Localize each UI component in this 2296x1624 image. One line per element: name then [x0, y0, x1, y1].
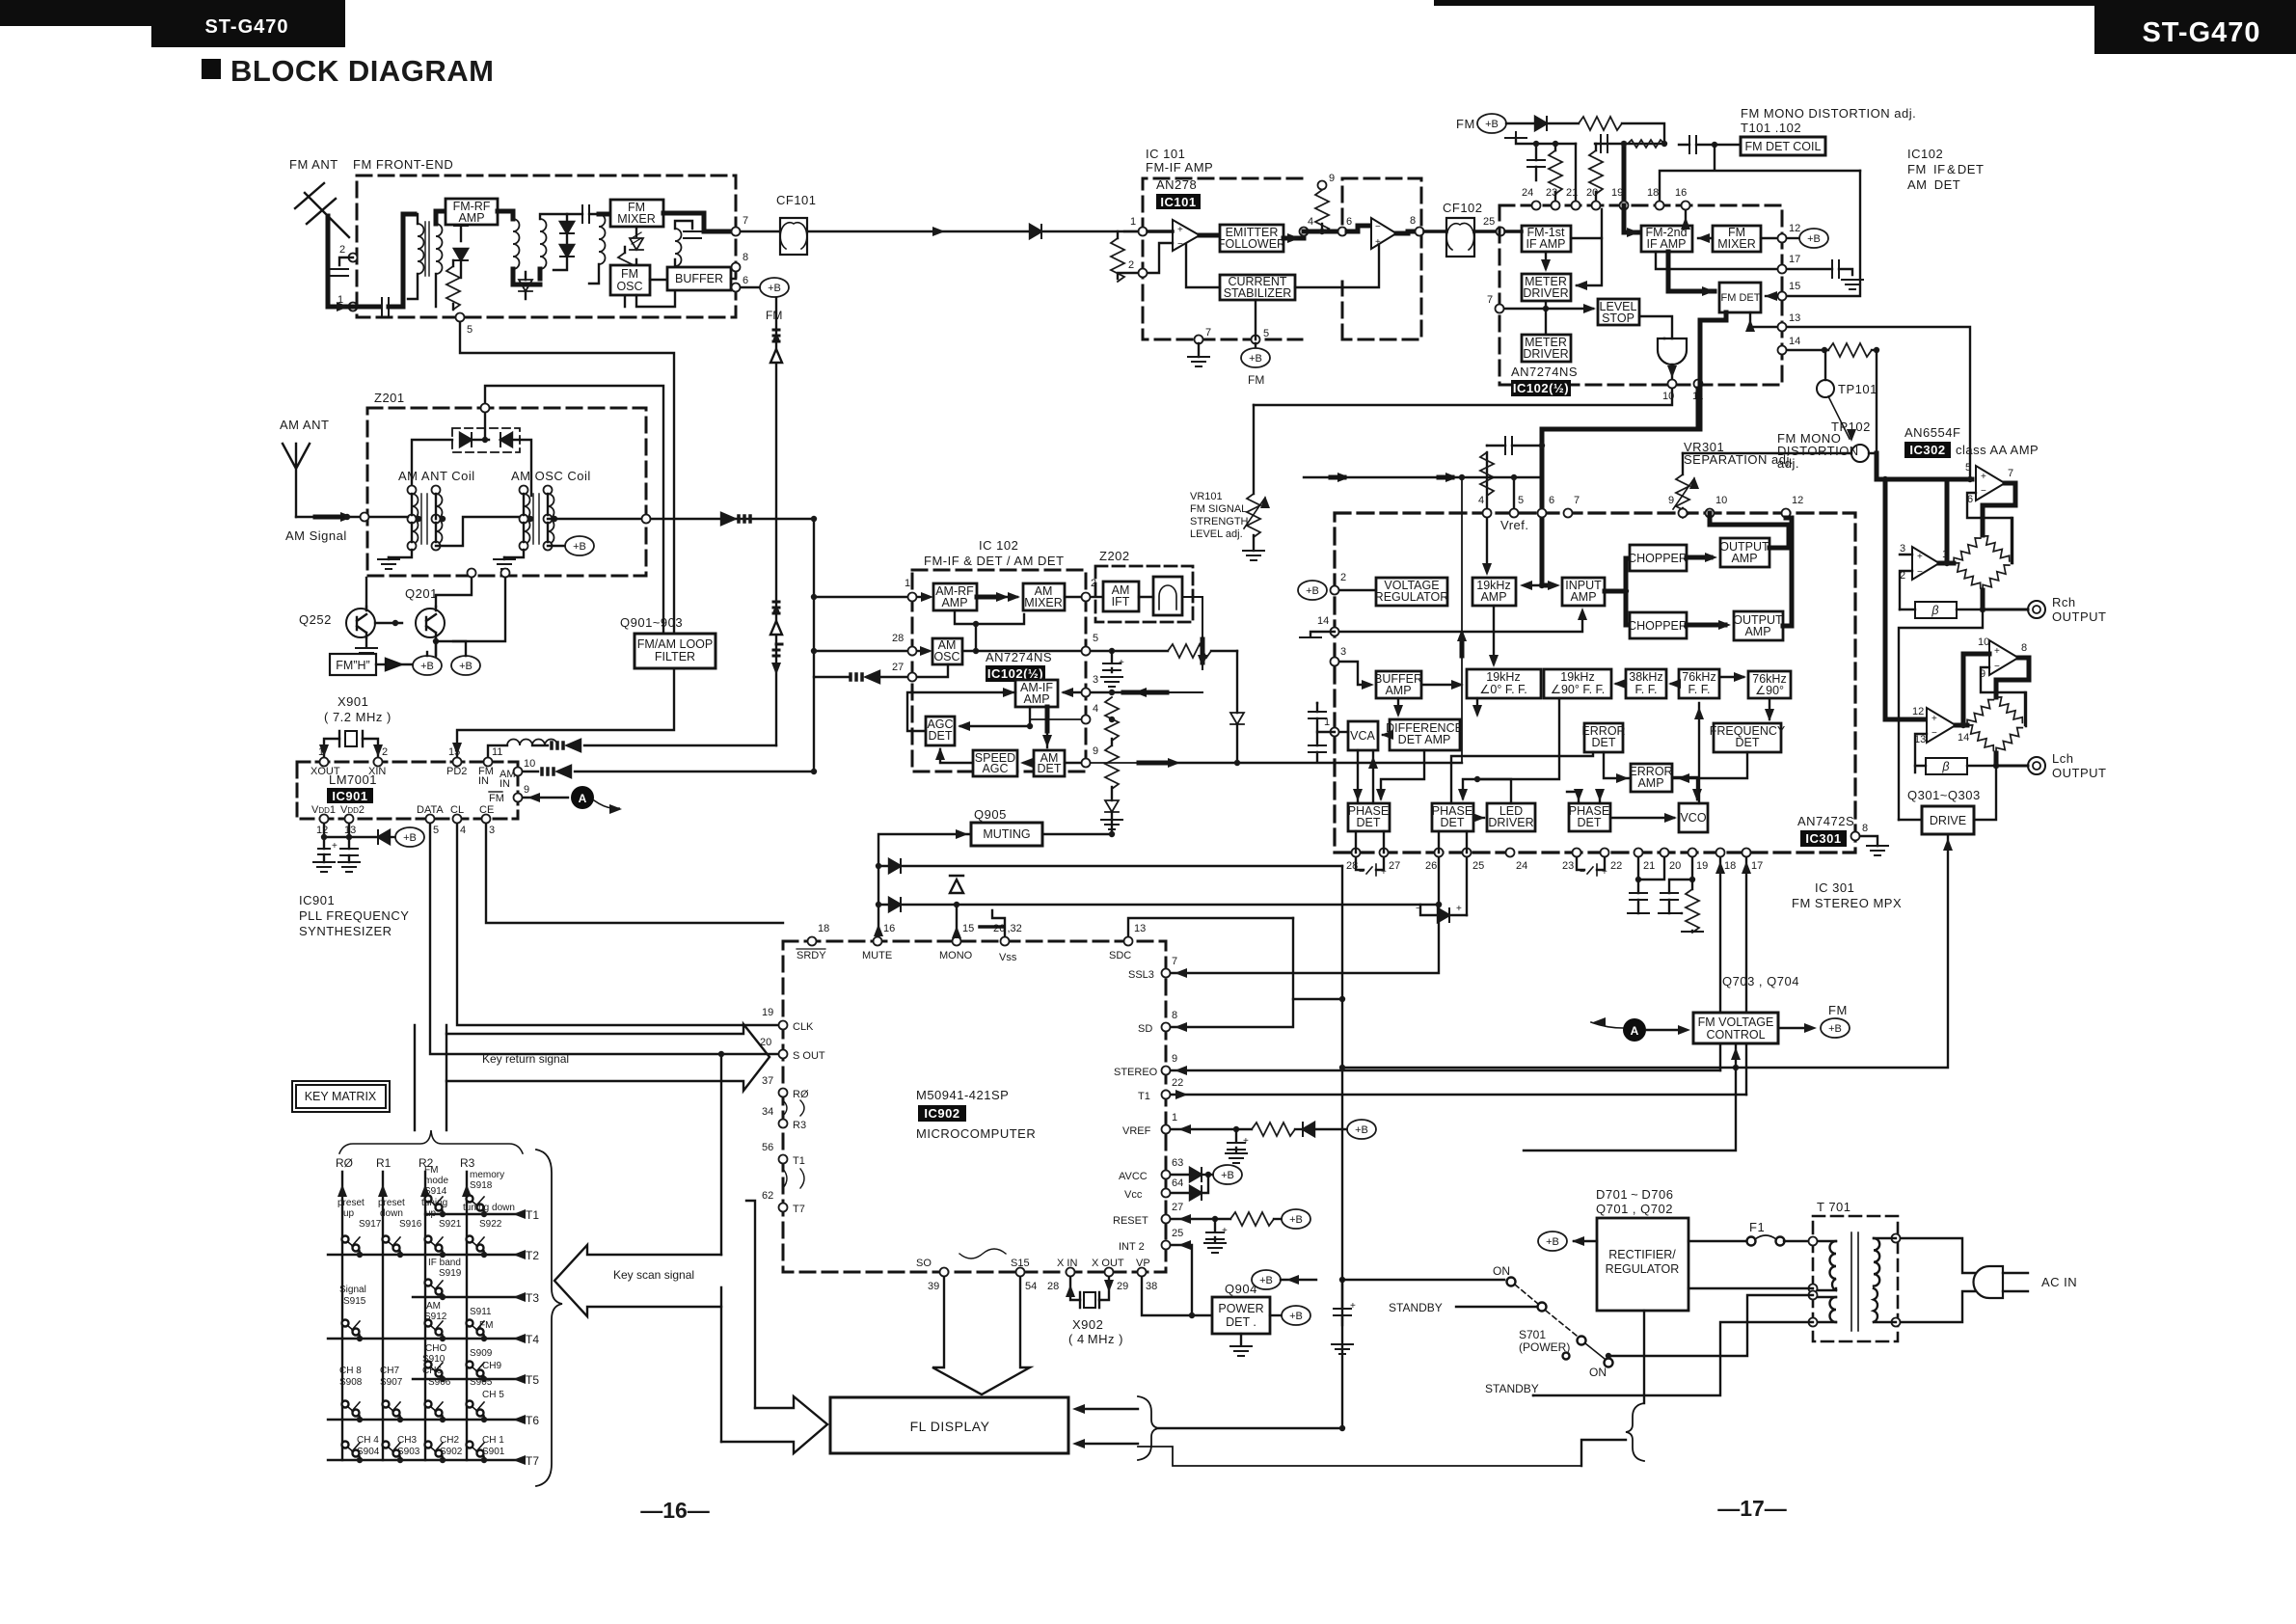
wire buffer to 19k0ff	[1421, 684, 1460, 686]
svg-text:14: 14	[1317, 615, 1329, 627]
svg-text:BLOCK DIAGRAM: BLOCK DIAGRAM	[230, 54, 494, 88]
svg-text:DRIVER: DRIVER	[1523, 286, 1568, 300]
svg-text:∠90°: ∠90°	[1755, 684, 1784, 697]
+B vdd oval	[395, 827, 424, 847]
svg-text:18: 18	[1647, 187, 1659, 199]
+B rectifier	[1538, 1232, 1567, 1251]
svg-text:10: 10	[524, 758, 535, 770]
svg-text:OSC: OSC	[616, 280, 642, 293]
+B reset	[1282, 1209, 1310, 1229]
svg-text:28: 28	[892, 633, 904, 644]
svg-text:β: β	[1941, 760, 1949, 773]
resistor mid2	[618, 253, 632, 296]
squiggle SO-S15	[959, 1249, 1006, 1259]
IC102 AM dashed box	[912, 570, 1086, 771]
pin14 left	[1331, 628, 1339, 636]
terminal 6	[732, 284, 741, 292]
svg-text:3: 3	[1900, 543, 1905, 555]
opamp b inv loop	[1981, 667, 2026, 726]
wire phase2 pins down	[1439, 831, 1467, 853]
FM-2nd IF AMP block	[1641, 226, 1692, 252]
svg-text:MIXER: MIXER	[1024, 596, 1063, 609]
coil right	[599, 214, 606, 264]
pin4 top	[1483, 509, 1492, 518]
svg-text:CH2: CH2	[440, 1435, 459, 1446]
pin9 STEREO	[1162, 1067, 1171, 1075]
svg-text:20: 20	[1586, 187, 1598, 199]
svg-text:29: 29	[1117, 1281, 1128, 1292]
VR301 pot	[1676, 474, 1689, 518]
svg-text:FM MONO DISTORTION adj.: FM MONO DISTORTION adj.	[1741, 106, 1916, 121]
svg-text:2: 2	[1340, 572, 1346, 583]
svg-text:CF102: CF102	[1443, 201, 1483, 215]
svg-text:7: 7	[1574, 495, 1580, 506]
svg-text:3: 3	[1093, 674, 1098, 686]
wire outamp2 out thick	[1783, 518, 1792, 626]
wire buffer out	[731, 278, 736, 280]
FM VOLTAGE CONTROL block	[1693, 1013, 1778, 1043]
wire primary to plug bottom	[1901, 1291, 1978, 1322]
op-amp U2c	[1927, 708, 1956, 743]
wire osc to mixer	[962, 614, 1024, 651]
svg-text:FM/AM LOOP: FM/AM LOOP	[637, 637, 713, 651]
opamp a input stub	[1900, 555, 1912, 609]
svg-text:F1: F1	[1749, 1220, 1765, 1234]
svg-text:FOLLOWER: FOLLOWER	[1218, 237, 1285, 251]
IC902 dashed box	[783, 941, 1166, 1272]
pin20	[1592, 202, 1601, 210]
svg-text:11: 11	[492, 746, 502, 758]
pin2 AM	[1082, 593, 1091, 602]
wire lch node to drive	[1974, 766, 1996, 820]
wire VR101 up	[1253, 405, 1255, 494]
svg-text:SRDY: SRDY	[797, 950, 826, 961]
svg-text:M50941-421SP: M50941-421SP	[916, 1088, 1009, 1102]
wire drive left	[1899, 819, 1922, 821]
diode vcc	[1171, 1192, 1190, 1194]
wire mute up	[874, 924, 883, 936]
wire rect bottom down	[1643, 1311, 1645, 1403]
svg-text:38kHz: 38kHz	[1629, 670, 1662, 684]
svg-text:8: 8	[743, 252, 748, 263]
wire mixer out thick to pin7	[663, 213, 729, 231]
svg-text:7: 7	[1205, 327, 1211, 338]
svg-text:Lch: Lch	[2052, 751, 2073, 766]
wire osc-buffer	[636, 280, 675, 307]
wire osc rf feedback	[955, 610, 976, 624]
wire Q201 emitter	[435, 637, 437, 655]
pin4 CL	[453, 815, 462, 824]
svg-text:AMP: AMP	[1731, 552, 1757, 565]
dot tap	[416, 516, 421, 522]
svg-text:up: up	[425, 1208, 437, 1219]
wire pin7 to CF101	[741, 230, 780, 232]
svg-text:(POWER): (POWER)	[1519, 1340, 1570, 1354]
pin26/32 Vss	[1001, 937, 1010, 946]
svg-text:DET .: DET .	[1226, 1315, 1256, 1329]
svg-text:1: 1	[905, 578, 910, 589]
bridge 1	[1951, 535, 1983, 566]
svg-text:S701: S701	[1519, 1328, 1546, 1341]
pin7 SSL3	[1162, 969, 1171, 978]
wire vca down phase1	[1358, 750, 1373, 803]
diode gate right	[500, 433, 512, 447]
svg-text:8: 8	[1862, 823, 1868, 834]
svg-text:STANDBY: STANDBY	[1485, 1382, 1539, 1395]
svg-text:STABILIZER: STABILIZER	[1224, 286, 1292, 300]
svg-text:7: 7	[2008, 468, 2013, 479]
switch row connect dots	[440, 1211, 446, 1217]
svg-text:AN7274NS: AN7274NS	[986, 650, 1052, 664]
FM DET COIL block	[1741, 137, 1825, 155]
svg-text:17: 17	[1751, 860, 1763, 872]
pin37 R0	[779, 1089, 788, 1097]
38kHz FF block	[1626, 669, 1666, 698]
pin8 SD	[1162, 1023, 1171, 1032]
wire osc out dashes	[651, 518, 814, 520]
svg-text:ST-G470: ST-G470	[204, 16, 288, 38]
svg-text:FM DET COIL: FM DET COIL	[1745, 140, 1822, 153]
svg-text:22: 22	[1172, 1077, 1183, 1089]
wire pin5 to loop filter	[460, 322, 674, 634]
svg-text:IN: IN	[478, 775, 489, 787]
wire led driver top	[1477, 779, 1511, 803]
svg-text:STANDBY: STANDBY	[1389, 1301, 1443, 1314]
capacitor mid	[582, 205, 589, 223]
svg-text:OUTPUT: OUTPUT	[2052, 609, 2106, 624]
wire phase3 tops	[1567, 792, 1600, 803]
wire stereo to mpx pin18	[1171, 1069, 1720, 1071]
svg-text:CHOPPER: CHOPPER	[1628, 552, 1688, 565]
svg-text:Q901~903: Q901~903	[620, 615, 683, 630]
wire stabilizer to opamp2	[1295, 245, 1379, 287]
ground osc coil	[503, 557, 505, 559]
resistor 9 feedback	[1315, 190, 1329, 233]
A arrow pll	[594, 800, 619, 808]
pin9 FM bar	[514, 794, 523, 802]
svg-text:−: −	[1177, 239, 1183, 250]
arrow into FL from key scan	[721, 1396, 827, 1453]
wire CF102 to pin25	[1474, 230, 1496, 233]
svg-text:AM OSC Coil: AM OSC Coil	[511, 469, 591, 483]
svg-text:T7: T7	[526, 1454, 539, 1468]
svg-text:FM-IF & DET / AM DET: FM-IF & DET / AM DET	[924, 554, 1065, 568]
svg-text:S919: S919	[439, 1268, 462, 1279]
wire pin3 to buffer	[1339, 662, 1368, 685]
svg-text:FM-IF AMP: FM-IF AMP	[1146, 160, 1213, 175]
DIFFERENCE DET AMP block	[1390, 719, 1460, 750]
op-amp U1b	[1371, 218, 1396, 249]
pin10	[1668, 380, 1677, 389]
svg-text:AN7472S: AN7472S	[1797, 814, 1854, 828]
pin34 R3	[779, 1120, 788, 1128]
svg-text:10: 10	[1978, 636, 1989, 648]
svg-text:AMP: AMP	[1570, 590, 1596, 604]
transformer secondary terminals	[1809, 1237, 1818, 1246]
svg-text:56: 56	[762, 1142, 773, 1153]
svg-text:IF band: IF band	[428, 1258, 461, 1268]
pin6 top	[1538, 509, 1547, 518]
bridge2 out thick	[1994, 753, 1999, 766]
wire rect to coil2	[1688, 1287, 1813, 1289]
wire pin5 net	[976, 650, 1168, 652]
svg-text:Vss: Vss	[999, 952, 1017, 963]
svg-text:FM: FM	[1248, 373, 1264, 387]
AM OSC block	[932, 638, 962, 664]
wire pin17 down long	[1745, 857, 1747, 1095]
svg-text:A: A	[579, 792, 587, 805]
svg-text:∠90° F. F.: ∠90° F. F.	[1551, 683, 1606, 696]
svg-text:CH6: CH6	[422, 1366, 442, 1376]
svg-text:25: 25	[1472, 860, 1484, 872]
diode mono	[956, 905, 958, 936]
svg-text:25: 25	[1172, 1228, 1183, 1239]
svg-text:S921: S921	[439, 1219, 462, 1230]
VOLTAGE REGULATOR block	[1376, 578, 1447, 606]
pin2 XIN	[374, 758, 383, 767]
svg-text:IC901: IC901	[332, 789, 367, 803]
svg-text:Key return signal: Key return signal	[482, 1052, 569, 1066]
svg-text:RESET: RESET	[1113, 1215, 1148, 1227]
svg-text:X OUT: X OUT	[1092, 1258, 1124, 1269]
AM DET block	[1034, 750, 1065, 776]
19kHz AMP block	[1472, 578, 1516, 606]
ground pin7	[1198, 343, 1200, 357]
resistor to ground	[446, 266, 460, 310]
interstage coils	[513, 219, 520, 269]
svg-text:tuning down: tuning down	[463, 1203, 515, 1213]
wire node to LEVEL STOP	[1546, 308, 1593, 310]
pin14	[1778, 346, 1787, 355]
wire error det down to phase2	[1451, 752, 1593, 803]
svg-text:+: +	[1994, 646, 2000, 657]
AGC DET block	[926, 717, 955, 745]
svg-text:A: A	[1631, 1024, 1639, 1038]
svg-text:15: 15	[1789, 281, 1800, 292]
svg-text:39: 39	[928, 1281, 939, 1292]
svg-text:10: 10	[1715, 495, 1727, 506]
svg-text:AM Signal: AM Signal	[285, 528, 347, 543]
wire pin8 from buffer	[735, 272, 737, 279]
19kHz 90 FF block	[1544, 669, 1611, 698]
svg-text:19: 19	[1696, 860, 1708, 872]
wire SPEED AGC to AGC DET	[940, 749, 973, 763]
wire fm voltage control out	[1778, 1027, 1807, 1029]
wire pin20 resistor	[1589, 150, 1603, 194]
bottom pins SO	[940, 1268, 949, 1277]
wire gate to pin10	[1671, 365, 1673, 378]
svg-text:Q252: Q252	[299, 612, 332, 627]
svg-text:−: −	[1375, 222, 1381, 232]
OUTPUT AMP block 1	[1720, 538, 1769, 567]
opamp d feedback thick	[1983, 483, 2015, 535]
wire 76kff to 76k90	[1719, 676, 1743, 678]
wire coil4 standby	[1533, 1322, 1813, 1395]
svg-text:+: +	[1119, 658, 1124, 668]
svg-text:MICROCOMPUTER: MICROCOMPUTER	[916, 1126, 1036, 1141]
transformer terminals	[408, 486, 417, 495]
svg-text:S901: S901	[482, 1447, 505, 1457]
svg-text:Key scan signal: Key scan signal	[613, 1268, 694, 1282]
cap vdd1	[318, 849, 330, 854]
pin7 top	[1564, 509, 1573, 518]
ERROR DET block	[1584, 723, 1623, 752]
bridge1 out thick	[1981, 590, 1985, 609]
transformer primary coil	[1874, 1238, 1879, 1322]
resistor chain below pin3	[1109, 690, 1115, 695]
svg-text:Q701 , Q702: Q701 , Q702	[1596, 1202, 1673, 1216]
thick vertical into output node	[1945, 479, 1950, 563]
svg-text:AMP: AMP	[1023, 692, 1049, 706]
wire 2nd IF thick to FM DET	[1668, 252, 1715, 291]
PHASE DET block 1	[1348, 803, 1390, 831]
svg-text:preset: preset	[338, 1198, 365, 1208]
svg-text:preset: preset	[378, 1198, 405, 1208]
wire FM-RF out thick	[498, 211, 513, 219]
svg-text:FM IF & DET: FM IF & DET	[1907, 162, 1984, 176]
svg-text:+: +	[1177, 225, 1183, 235]
bandpass filter symbol	[1153, 577, 1182, 615]
svg-text:3: 3	[489, 825, 495, 836]
svg-text:AMP: AMP	[1385, 684, 1411, 697]
svg-text:9: 9	[524, 784, 529, 796]
svg-text:26 ,32: 26 ,32	[993, 923, 1022, 934]
svg-text:DET: DET	[1736, 736, 1760, 749]
wire power det +B	[1270, 1314, 1282, 1316]
pin18	[1656, 202, 1664, 210]
svg-text:4: 4	[460, 825, 466, 836]
svg-text:FILTER: FILTER	[655, 650, 695, 663]
wire 1st IF out	[1571, 209, 1602, 238]
wire crystal to pins	[324, 739, 378, 757]
brace under shaft	[339, 1130, 523, 1153]
opamp b feedback thick	[1996, 658, 2029, 697]
wire to IC102 pin28	[814, 650, 908, 652]
pin23	[1552, 202, 1560, 210]
wire det coil junction down	[1660, 145, 1860, 205]
svg-text:1: 1	[1942, 549, 1948, 560]
svg-text:DATA: DATA	[417, 804, 444, 816]
pin13 SDC	[1124, 937, 1133, 946]
svg-text:5: 5	[433, 825, 439, 836]
svg-text:37: 37	[762, 1075, 773, 1087]
beta block 1	[1915, 602, 1957, 618]
terminal 7	[732, 228, 741, 236]
vertical FM b+ feed line	[775, 298, 777, 745]
wire into pin3 thick	[1145, 691, 1202, 693]
FL right bracket	[1138, 1396, 1159, 1460]
svg-text:SDC: SDC	[1109, 950, 1131, 961]
wire DATA down	[430, 824, 783, 1054]
svg-text:—16—: —16—	[640, 1498, 710, 1523]
Z201 dashed box	[367, 408, 646, 576]
wire FL lower run	[1138, 1447, 1581, 1466]
svg-text:S909: S909	[470, 1348, 493, 1359]
svg-text:9: 9	[1172, 1053, 1177, 1065]
svg-text:S918: S918	[470, 1180, 493, 1191]
osc coil	[675, 229, 682, 279]
wire pin11 thick	[1698, 389, 1700, 429]
Z202 dashed box	[1095, 566, 1193, 622]
svg-text:FM: FM	[489, 793, 504, 804]
svg-text:+: +	[1350, 1301, 1356, 1312]
wire phase3 to vco	[1610, 817, 1674, 819]
svg-text:FM SIGNAL: FM SIGNAL	[1190, 503, 1247, 515]
svg-text:34: 34	[762, 1106, 773, 1118]
IC101 black tag	[1156, 194, 1201, 209]
svg-text:9: 9	[1668, 495, 1674, 506]
wire to lch jack	[1996, 765, 2028, 768]
bridge1 right loop	[2011, 518, 2012, 563]
svg-text:F. F.: F. F.	[1688, 683, 1711, 696]
svg-text:Vref.: Vref.	[1500, 518, 1528, 532]
FM MIXER block	[1713, 226, 1761, 252]
svg-text:T1: T1	[1138, 1091, 1150, 1102]
pin15 MONO	[953, 937, 961, 946]
wire outamp1 to pin10 thick	[1710, 513, 1789, 548]
vss ground hook	[992, 910, 1005, 936]
wire VR301	[1682, 453, 1684, 513]
wire chopper2 to outamp2 thick	[1687, 623, 1725, 628]
varactor diodes mid	[560, 222, 574, 233]
svg-text:IC 102: IC 102	[979, 538, 1018, 553]
pin27	[908, 673, 917, 682]
pin5	[1082, 647, 1091, 656]
svg-text:OUTPUT: OUTPUT	[2052, 766, 2106, 780]
SPEED AGC block	[973, 750, 1017, 776]
svg-text:X902: X902	[1072, 1317, 1103, 1332]
svg-text:CH3: CH3	[397, 1435, 417, 1446]
LEVEL STOP block	[1598, 299, 1639, 325]
svg-text:14: 14	[1789, 336, 1800, 347]
wire pin2 to AM IFT	[1091, 596, 1103, 598]
wire phase2 to led driver	[1473, 817, 1484, 819]
cap vdd2	[340, 849, 358, 855]
cap on rail B	[1601, 135, 1607, 152]
wire diff to vca	[1383, 734, 1390, 736]
pin16	[1682, 202, 1690, 210]
svg-text:16: 16	[1675, 187, 1687, 199]
pin8 right	[1851, 832, 1860, 841]
svg-text:+: +	[1602, 867, 1607, 878]
svg-text:IC302: IC302	[1909, 443, 1945, 457]
wire drive route down left	[1342, 1067, 1736, 1069]
wire pin18 down long	[1719, 857, 1721, 1070]
svg-text:SYNTHESIZER: SYNTHESIZER	[299, 924, 392, 938]
wire to FM MIXER thick	[599, 212, 610, 217]
svg-text:D701 ~ D706: D701 ~ D706	[1596, 1187, 1673, 1202]
svg-text:CHOPPER: CHOPPER	[1628, 619, 1688, 633]
cap reset	[1214, 1219, 1216, 1241]
BUFFER block	[667, 267, 731, 290]
wire rail A to pin21	[1575, 144, 1577, 205]
svg-text:6: 6	[1549, 495, 1554, 506]
svg-text:VR101: VR101	[1190, 491, 1223, 502]
svg-text:STRENGTH: STRENGTH	[1190, 516, 1249, 528]
svg-text:19: 19	[1611, 187, 1623, 199]
Key scan signal arrow	[554, 1245, 721, 1316]
svg-text:21: 21	[1643, 860, 1655, 872]
bridge2 right loop	[2024, 692, 2026, 725]
svg-text:−: −	[1416, 904, 1421, 914]
svg-text:+: +	[1917, 552, 1923, 562]
19kHz 0 FF block	[1467, 669, 1541, 698]
resistor right of pin5	[1168, 644, 1211, 658]
svg-text:38: 38	[1146, 1281, 1157, 1292]
pin8 terminal	[1416, 228, 1424, 236]
Rch output jack	[2028, 601, 2045, 618]
pin2 left	[1331, 586, 1339, 595]
